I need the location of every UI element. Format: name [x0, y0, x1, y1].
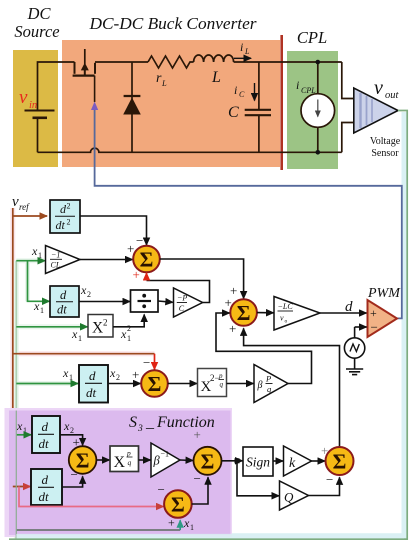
- svg-text:x: x: [120, 327, 127, 341]
- plus sign SP2 top-left: [194, 427, 201, 442]
- svg-text:−1: −1: [51, 251, 60, 260]
- svg-text:x: x: [71, 327, 78, 341]
- svg-text:Σ: Σ: [201, 449, 215, 473]
- svg-text:dt: dt: [86, 385, 97, 400]
- svg-text:Σ: Σ: [148, 372, 162, 396]
- svg-text:+: +: [133, 267, 140, 282]
- freewheeling diode D1: [123, 62, 141, 152]
- summing junction SP1: [69, 446, 97, 474]
- svg-text:X: X: [92, 320, 103, 337]
- wire -LC/v to PWM +: [320, 312, 367, 314]
- svg-text:1: 1: [40, 306, 44, 315]
- svg-text:1: 1: [190, 523, 194, 532]
- v_ref branch to X-row sum (dark red, red arrow): [13, 354, 155, 370]
- outer feedback: final sum output to S2 bottom: [244, 328, 340, 447]
- power block X^(2-p/q): [198, 369, 227, 397]
- svg-text:d: d: [42, 472, 49, 487]
- wire X^(2-p/q) to beta P/q: [227, 383, 254, 385]
- wire Q to final sum bottom: [309, 477, 340, 495]
- wire inductor to CPL node: [234, 61, 342, 63]
- svg-text:+: +: [194, 427, 201, 442]
- minus sign SP1 bottom: [71, 467, 78, 482]
- svg-text:2: 2: [127, 324, 131, 333]
- PWM comparator triangle: [368, 300, 398, 337]
- svg-text:2: 2: [87, 290, 91, 299]
- wire X^2 to divider bottom: [113, 315, 144, 327]
- squarer block X^2: [88, 315, 113, 338]
- v_ref into purple d/dt bottom (red arrow): [13, 486, 31, 488]
- MOSFET gate lead: [94, 76, 96, 102]
- svg-text:C: C: [239, 90, 245, 99]
- wire X^(p/q) to beta^-1: [139, 459, 151, 461]
- svg-text:dt: dt: [39, 436, 50, 451]
- ground rail bottom wire with hop over gate line: [38, 148, 342, 152]
- inner feedback: beta P/q output to S2 left: [216, 313, 312, 384]
- derivative block d/dt purple bottom: [31, 469, 62, 505]
- wire SP2 output to Sign with junction: [222, 458, 243, 463]
- minus sign X-row sum top: [143, 355, 150, 370]
- svg-text:P: P: [265, 374, 271, 384]
- svg-text:dt: dt: [39, 489, 50, 504]
- wire v_ref to d2/dt2: [13, 215, 47, 217]
- MOSFET drain wire to inductor branch: [95, 61, 148, 63]
- wire k to final sum: [312, 460, 326, 462]
- svg-text:C: C: [228, 104, 239, 121]
- svg-text:+: +: [370, 306, 377, 320]
- label x1 for d/dt row: [33, 299, 44, 315]
- label x1 at S3: [183, 516, 194, 532]
- wire purple d/dt to sum SP1 top: [60, 435, 83, 446]
- svg-text:x: x: [31, 244, 38, 258]
- wire S3 output to SP2 bottom: [192, 477, 208, 504]
- feedback from -P/C into S1 bottom: [147, 273, 210, 303]
- label x1 X-row input: [62, 366, 73, 382]
- svg-text:d: d: [89, 368, 96, 383]
- label PWM: [367, 286, 401, 301]
- svg-text:2: 2: [116, 373, 120, 382]
- wire X-row sum to X^(2-p/q): [168, 383, 197, 385]
- svg-text:X: X: [114, 454, 126, 471]
- label v_out: [374, 77, 400, 101]
- summing junction SP2: [194, 447, 222, 475]
- soft glows for colored feedback lines: [13, 208, 155, 539]
- svg-text:v: v: [19, 87, 28, 108]
- label i_CPL: [296, 78, 316, 95]
- sensed x1 line passing over S3 region: [9, 411, 407, 540]
- svg-text:Source: Source: [14, 22, 59, 41]
- green feedback branch into X-row d/dt: [16, 383, 78, 385]
- capacitor C branch wire: [258, 62, 260, 152]
- derivative block d/dt (x2): [50, 286, 79, 317]
- minus sign final sum bottom: [326, 472, 333, 487]
- svg-text:i: i: [234, 83, 237, 97]
- svg-text:−: −: [194, 471, 201, 486]
- minus sign S3 left: [158, 482, 165, 497]
- svg-text:DC: DC: [27, 4, 52, 23]
- label x1 for -1/CL input: [31, 244, 42, 260]
- svg-text:1: 1: [78, 334, 82, 343]
- svg-text:x: x: [183, 516, 190, 530]
- svg-text:3: 3: [137, 424, 143, 434]
- wire d/dt to divider: [79, 301, 130, 303]
- voltage source Vin label: [19, 87, 37, 111]
- minus sign at S1 top: [136, 233, 143, 248]
- svg-text:−1: −1: [161, 450, 170, 459]
- svg-text:i: i: [296, 78, 299, 92]
- svg-text:Function: Function: [156, 414, 215, 431]
- resistor rL zigzag: [148, 56, 194, 68]
- label v_ref: [12, 194, 30, 212]
- green feedback branch B: [28, 261, 50, 302]
- derivative block d2/dt2: [50, 200, 80, 233]
- svg-text:in: in: [29, 100, 37, 111]
- x1 feed into S3 bottom (teal): [16, 520, 180, 530]
- svg-text:L: L: [161, 78, 167, 88]
- plus sign S2 left: [225, 295, 232, 310]
- label x1 for X^2 input: [71, 327, 82, 343]
- MOSFET Q1 (switch): [73, 49, 95, 76]
- svg-text:CPL: CPL: [301, 86, 316, 95]
- label d (duty): [345, 299, 353, 315]
- svg-text:Voltage: Voltage: [370, 136, 401, 147]
- wire S1 output to sum S2 top: [160, 259, 244, 299]
- svg-text:x: x: [80, 283, 87, 297]
- wire battery top to MOSFET source: [38, 62, 75, 110]
- summing junction S2: [230, 299, 257, 326]
- svg-text:+: +: [168, 516, 175, 530]
- CPL region box: [287, 51, 338, 169]
- label DC-DC Buck Converter: [88, 14, 256, 33]
- svg-text:p: p: [218, 372, 223, 380]
- gain block -P/C triangle: [174, 288, 203, 317]
- divider block: [131, 290, 159, 312]
- svg-text:1: 1: [127, 334, 131, 343]
- svg-text:S: S: [129, 414, 137, 431]
- green feedback wire into gain -1/CL: [16, 260, 45, 262]
- svg-text:C: C: [179, 304, 185, 313]
- sawtooth oscillator OSC: [344, 327, 366, 358]
- svg-text:p: p: [126, 449, 131, 458]
- svg-text:−: −: [371, 320, 378, 335]
- current label iC with arrow: [234, 83, 255, 101]
- DC source region box: [13, 50, 58, 167]
- svg-text:β: β: [153, 454, 161, 468]
- svg-text:Σ: Σ: [140, 248, 154, 272]
- derivative block d/dt purple top: [32, 416, 60, 453]
- svg-text:+: +: [132, 367, 139, 382]
- svg-text:2: 2: [103, 318, 108, 328]
- svg-text:Sign: Sign: [246, 455, 270, 470]
- plus sign S2 bottom: [229, 321, 236, 336]
- svg-text:CL: CL: [51, 261, 61, 270]
- minus sign SP2 bottom: [194, 471, 201, 486]
- CPL current source i_CPL: [301, 60, 335, 155]
- svg-text:v: v: [280, 314, 284, 323]
- sign block: [243, 447, 273, 476]
- v_ref distribution line (dark red): [12, 208, 14, 487]
- summing junction S3: [164, 490, 192, 518]
- label rL: [156, 71, 167, 88]
- svg-text:dt: dt: [57, 303, 67, 317]
- svg-text:L: L: [244, 47, 250, 56]
- label x2 output of d/dt: [80, 283, 91, 299]
- svg-text:out: out: [385, 90, 400, 101]
- wire Sign to k: [273, 460, 283, 462]
- label x2 purple: [63, 419, 74, 435]
- branch from junction to Q: [237, 463, 279, 496]
- label x1 purple d/dt input: [16, 419, 27, 435]
- wire purple d/dt bottom to SP1 bottom: [62, 476, 83, 487]
- svg-text:−: −: [143, 355, 150, 370]
- battery B1: [25, 111, 55, 118]
- svg-text:_: _: [145, 414, 155, 431]
- svg-text:o: o: [285, 319, 288, 325]
- gain block -1/CL triangle: [46, 246, 81, 274]
- svg-text:k: k: [289, 456, 296, 471]
- derivative block d/dt X-row: [79, 365, 108, 403]
- svg-text:PWM: PWM: [367, 286, 401, 301]
- svg-text:1: 1: [38, 251, 42, 260]
- plus sign S3 bottom: [168, 516, 175, 530]
- svg-text:−P: −P: [177, 294, 187, 303]
- voltage sensor U2 triangle: [354, 88, 398, 133]
- summing junction S1: [133, 246, 160, 273]
- S3 function purple region box: [9, 411, 231, 536]
- label S3_Function: [129, 414, 215, 434]
- svg-text:ref: ref: [19, 202, 30, 212]
- wire SP1 to X^(p/q): [96, 459, 109, 461]
- wires CPL node to voltage sensor: [342, 62, 354, 152]
- svg-text:2: 2: [67, 202, 71, 211]
- svg-text:−: −: [326, 472, 333, 487]
- label C: [228, 104, 239, 121]
- summing junction X-row: [141, 370, 168, 397]
- svg-text:DC-DC Buck Converter: DC-DC Buck Converter: [88, 14, 256, 33]
- plus sign S1 left: [127, 241, 134, 256]
- wire beta^-1 to SP2: [180, 459, 193, 462]
- gain block beta^-1 triangle: [151, 443, 180, 477]
- plus sign final sum left: [321, 443, 328, 458]
- svg-text:Q: Q: [284, 490, 294, 505]
- svg-text:q: q: [220, 381, 224, 389]
- svg-text:i: i: [240, 40, 243, 54]
- wire d/dt to X-row sum: [108, 383, 141, 385]
- wire -1/CL to sum S1: [80, 259, 133, 261]
- S3 function purple region shadow: [5, 408, 233, 537]
- label Voltage Sensor: [370, 136, 401, 159]
- svg-text:Σ: Σ: [76, 449, 90, 473]
- plus sign S2 top: [230, 283, 237, 298]
- wire S2 to gain -LC/v: [257, 312, 274, 314]
- gain block k triangle: [284, 446, 312, 476]
- label DC Source: [14, 4, 59, 41]
- svg-text:q: q: [128, 458, 132, 467]
- svg-text:d: d: [42, 419, 49, 434]
- svg-text:L: L: [211, 69, 221, 86]
- wire battery bottom to ground rail: [37, 118, 39, 152]
- plus sign SP1 top: [73, 435, 80, 450]
- final summing junction SF: [326, 447, 354, 475]
- svg-text:−LC: −LC: [278, 302, 294, 311]
- svg-text:v: v: [12, 194, 19, 210]
- current label iL with arrow: [234, 40, 251, 58]
- svg-text:2: 2: [67, 218, 71, 227]
- label CPL: [297, 28, 327, 47]
- svg-text:x: x: [109, 366, 116, 380]
- svg-text:Σ: Σ: [171, 493, 185, 517]
- wire d2/dt2 to sum S1 top: [80, 216, 147, 245]
- svg-text:x: x: [16, 419, 23, 433]
- svg-text:v: v: [374, 77, 383, 99]
- ground symbol under oscillator: [346, 358, 363, 374]
- svg-text:x: x: [63, 419, 70, 433]
- svg-text:Sensor: Sensor: [371, 148, 399, 159]
- label x1^2: [120, 324, 131, 343]
- separator line between converter and CPL: [280, 35, 283, 170]
- svg-text:dt: dt: [56, 218, 66, 232]
- gain block beta P/q triangle: [254, 365, 288, 403]
- svg-text:d: d: [60, 288, 67, 302]
- PWM gate-drive feedback line (blue): [91, 102, 402, 319]
- svg-text:CPL: CPL: [297, 28, 327, 47]
- svg-text:x: x: [62, 366, 69, 380]
- sensor output feedback line (vout, green with pale band): [16, 111, 407, 540]
- svg-text:1: 1: [69, 373, 73, 382]
- label x2 X-row: [109, 366, 120, 382]
- inductor L: [194, 55, 234, 62]
- pink v_ref branch into sum S3: [19, 487, 164, 507]
- DC-DC buck converter region box: [62, 40, 280, 167]
- svg-text:Σ: Σ: [333, 450, 347, 474]
- label L: [211, 69, 221, 86]
- svg-text:Σ: Σ: [237, 301, 251, 325]
- gain block Q triangle: [280, 481, 309, 510]
- svg-text:β: β: [257, 380, 263, 391]
- green feedback branch into purple d/dt: [16, 434, 31, 436]
- power block X^(p/q): [110, 446, 139, 472]
- gain block -LC/v triangle: [274, 297, 320, 331]
- capacitor C plates: [245, 110, 271, 115]
- wire divider to -P/C: [158, 301, 173, 302]
- svg-text:1: 1: [23, 426, 27, 435]
- svg-text:−: −: [158, 482, 165, 497]
- plus sign S1 bottom (red): [133, 267, 140, 282]
- plus sign X-row sum left: [132, 367, 139, 382]
- green feedback branch into X^2: [16, 326, 87, 328]
